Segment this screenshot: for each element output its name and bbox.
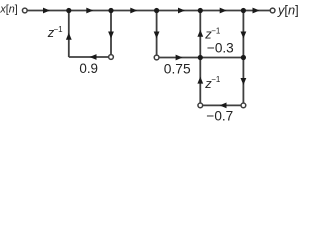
wire middle branch of loop 2 (gain 0.75 and -0.3): [159, 57, 243, 59]
wire bottom branch of loop 3 (gain -0.7): [203, 104, 241, 106]
wire vertical branch at x=111 (down, section 1): [110, 11, 112, 55]
arrow top line 2: [86, 8, 93, 14]
node dot top D: [198, 8, 203, 13]
arrow top line 4: [178, 8, 185, 14]
arrow top line 6 (into y[n]): [253, 8, 260, 14]
svg-text:y[n]: y[n]: [277, 2, 299, 17]
arrow down on branch x=111: [108, 32, 114, 39]
arrow down on branch x=243.4 upper: [241, 32, 247, 39]
node dot top A: [66, 8, 71, 13]
open node loop 3 bottom right: [241, 103, 246, 108]
svg-text:x[n]: x[n]: [0, 4, 18, 16]
wire vertical branch at x=156.6 (down, section 2): [156, 11, 158, 56]
arrow top line 1: [43, 8, 50, 14]
wire vertical branch at x=68.8 (z^-1 up, section 1): [68, 11, 70, 58]
node dot top E: [241, 8, 246, 13]
wire top line x[n] to y[n]: [27, 10, 270, 12]
node dot top B: [108, 8, 113, 13]
wire vertical branch at x=200.3 lower (z^-1 up, section 3): [199, 58, 201, 104]
output terminal circle: [270, 8, 275, 13]
open node loop 2 bottom left: [154, 55, 159, 60]
arrow left on -0.7 branch: [220, 103, 227, 109]
arrow right on 0.75 branch: [176, 55, 183, 61]
node dot top C: [154, 8, 159, 13]
node dot mid at x=200.3: [198, 55, 203, 60]
open node loop 3 bottom left: [198, 103, 203, 108]
arrow top line 5: [220, 8, 227, 14]
arrow top line 3: [130, 8, 137, 14]
arrow down on branch x=243.4 lower: [241, 78, 247, 85]
wire bottom branch of loop 1 (gain 0.9): [69, 56, 109, 58]
svg-text:−0.7: −0.7: [206, 108, 233, 123]
svg-text:0.75: 0.75: [164, 62, 191, 77]
arrow up on z^-1 branch section 1: [66, 33, 72, 40]
input terminal circle: [22, 8, 27, 13]
arrow left on 0.9 branch: [90, 54, 97, 60]
wire vertical branch at x=200.3 upper (z^-1 up, section 2): [199, 11, 201, 58]
arrow up on z^-1 branch section 2: [197, 30, 203, 37]
wire vertical branch at x=243.4 (down, sections 2-3): [242, 11, 244, 104]
svg-text:0.9: 0.9: [79, 61, 98, 76]
open node loop 1 bottom right: [109, 55, 114, 60]
svg-text:−0.3: −0.3: [207, 41, 234, 56]
arrow up on z^-1 branch section 3: [197, 77, 203, 84]
node dot mid at x=243.4: [241, 55, 246, 60]
arrow down on branch x=156.6: [154, 32, 160, 39]
